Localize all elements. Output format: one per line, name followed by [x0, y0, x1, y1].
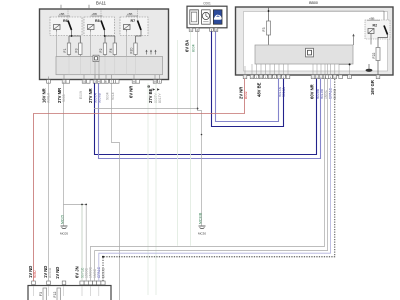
- wire 9007B blue pair2: [99, 79, 321, 159]
- fuse F3: [74, 43, 82, 55]
- wire 8004 grey to MC30: [198, 31, 202, 225]
- fuse F2: [99, 43, 107, 55]
- svg-text:MC30B: MC30B: [198, 212, 202, 224]
- svg-text:9003: 9003: [62, 94, 66, 102]
- busbar symbol BB00: [306, 48, 314, 57]
- pins under icon box: [189, 28, 218, 32]
- svg-text:48V BE: 48V BE: [257, 82, 262, 97]
- labels above bottom box: [28, 266, 106, 279]
- ground MC05: [60, 215, 68, 236]
- box BA11: [40, 9, 169, 80]
- svg-text:F3: F3: [262, 27, 266, 31]
- svg-text:MC30: MC30: [198, 232, 206, 236]
- labels under BB00: [239, 80, 376, 99]
- wire green faint 1: [147, 83, 149, 295]
- wire grey horizontal mid: [94, 108, 198, 110]
- pins bottom row BB00: [243, 75, 380, 79]
- internal wire near ground BB00: [339, 63, 351, 65]
- svg-text:BA11: BA11: [96, 1, 107, 6]
- svg-text:C001: C001: [203, 1, 211, 5]
- fuse F3 (bottom box): [39, 288, 47, 300]
- relay R8: [84, 10, 115, 36]
- relay R6: [50, 10, 82, 36]
- title BA11: [61, 1, 107, 9]
- wire 9007A navy pair2: [95, 79, 317, 155]
- arrows out (3): [145, 50, 156, 55]
- svg-text:F12: F12: [53, 292, 57, 298]
- svg-text:R2: R2: [373, 23, 378, 27]
- pin stubs bottom of BA11: [49, 75, 160, 80]
- pins top of bottom box: [32, 281, 105, 285]
- box C001 display unit: [187, 1, 227, 27]
- icon cell 2 clock: [202, 10, 211, 24]
- fuse F3 (BB00): [262, 21, 270, 45]
- box bottom connector: [28, 286, 111, 300]
- svg-text:R8: R8: [95, 19, 100, 23]
- wire drop to ground MC05: [63, 205, 65, 226]
- wire green faint 1b: [155, 83, 157, 295]
- svg-text:6V JN: 6V JN: [75, 266, 80, 278]
- svg-text:6V NR: 6V NR: [129, 86, 134, 98]
- svg-text:F4: F4: [109, 48, 113, 52]
- svg-text:+BB: +BB: [127, 12, 132, 16]
- svg-text:MC05: MC05: [60, 232, 68, 236]
- wire 9014 grey jog: [112, 83, 120, 300]
- svg-text:+BB: +BB: [369, 16, 374, 20]
- node junction 197: [197, 108, 199, 110]
- svg-text:F22: F22: [372, 53, 376, 59]
- svg-text:F2: F2: [99, 48, 103, 52]
- wire CAN dashed: [103, 79, 335, 281]
- wire blue pair1: [216, 31, 279, 121]
- node junction dashed corner: [102, 256, 104, 258]
- svg-text:16V GR: 16V GR: [370, 80, 375, 95]
- wire CPA1C blue low: [99, 79, 331, 281]
- wire A06LA grey: [48, 83, 50, 281]
- node junction 202: [201, 134, 203, 136]
- svg-text:8017Y: 8017Y: [158, 92, 162, 103]
- connector marks under BA11: [147, 85, 160, 91]
- svg-text:F1: F1: [63, 48, 67, 52]
- svg-text:9004: 9004: [106, 92, 110, 100]
- wire 19M0C grey: [85, 205, 87, 282]
- relay R2: [365, 16, 390, 47]
- wire symbol to pins BA11: [95, 62, 99, 80]
- wire navy pair1: [212, 31, 284, 126]
- svg-text:R6: R6: [63, 19, 68, 23]
- fuse F12 (bottom box): [53, 288, 61, 300]
- ground inside BB00: [366, 64, 373, 72]
- svg-text:27V BE: 27V BE: [148, 88, 153, 103]
- svg-text:E009: E009: [79, 91, 83, 99]
- wire R7 contact to fuse F20: [136, 30, 142, 43]
- svg-text:BB00: BB00: [309, 1, 318, 5]
- wire grey1 horizontal low: [90, 79, 324, 281]
- ground MC30: [198, 212, 206, 236]
- svg-text:8004: 8004: [192, 44, 196, 52]
- svg-text:9014A: 9014A: [282, 86, 286, 97]
- wire stubs inside bottom box: [34, 286, 99, 296]
- internal busbar block BB00: [255, 45, 353, 64]
- internal busbar symbol: [93, 55, 99, 61]
- internal pin stubs BB00: [245, 64, 350, 75]
- labels under icon box: [185, 40, 196, 52]
- svg-text:+BB: +BB: [59, 12, 64, 16]
- relay R7: [120, 10, 148, 36]
- wires inside sub box: [69, 57, 136, 75]
- svg-text:1V ND: 1V ND: [55, 267, 60, 279]
- wire green faint 3: [190, 31, 192, 245]
- box BB00: [236, 1, 394, 75]
- node junction 82: [81, 204, 83, 206]
- icon cell 1: [190, 10, 199, 24]
- fuse F1: [63, 43, 71, 55]
- labels under BA11: [41, 86, 162, 103]
- wire 90Y1C green: [81, 205, 83, 282]
- wire 9003 grey to MC05 junction: [64, 83, 87, 204]
- node junction 87: [85, 204, 87, 206]
- wire green faint 2: [177, 40, 179, 246]
- wire 8002 red: [34, 79, 245, 281]
- wire R8 contact to fuses F2 F4: [104, 30, 115, 43]
- arrow up inside BB00: [352, 34, 354, 45]
- svg-text:F3: F3: [74, 48, 78, 52]
- wire R6 contact to fuses F1 F3: [69, 30, 80, 43]
- svg-text:60V NR: 60V NR: [310, 84, 315, 99]
- icon cell 3 car: [213, 10, 222, 24]
- svg-text:6V BA: 6V BA: [185, 40, 190, 52]
- svg-text:R7: R7: [131, 19, 136, 23]
- pins bottom row BA11: [47, 80, 162, 84]
- wire +BB feed inside BB00: [268, 8, 384, 26]
- svg-text:MC05: MC05: [60, 215, 64, 224]
- internal block (sub box): [56, 57, 163, 75]
- wire grey2 low: [95, 79, 328, 281]
- svg-text:F20: F20: [130, 48, 134, 54]
- svg-text:A: A: [133, 80, 135, 84]
- wire fuse outputs into internal block: [57, 32, 136, 57]
- fuse F4: [109, 43, 117, 55]
- fuse F20: [130, 43, 138, 55]
- svg-text:+BB: +BB: [92, 12, 97, 16]
- svg-text:F3: F3: [39, 292, 43, 296]
- fuse F22: [372, 48, 380, 76]
